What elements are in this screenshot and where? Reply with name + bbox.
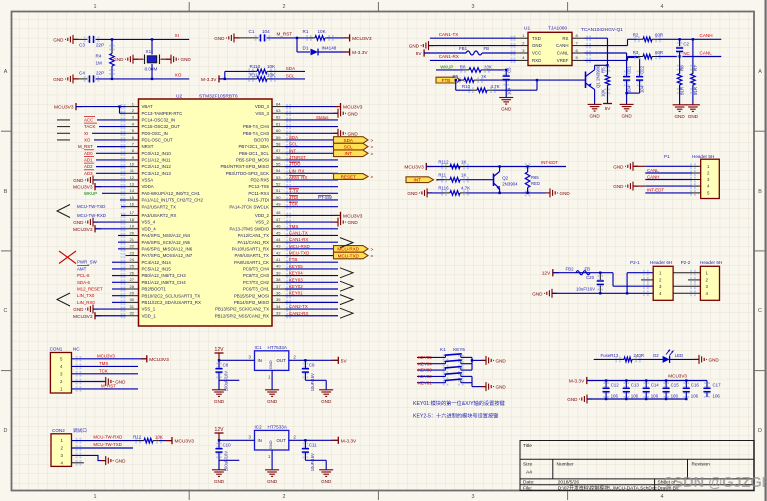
wire U2 right bottom row 11 [285, 288, 338, 290]
svg-text:SCL: SCL [289, 142, 298, 147]
ground (IC2) [265, 470, 279, 477]
svg-text:TCK: TCK [99, 368, 108, 373]
svg-text:PC5/A12_IN15: PC5/A12_IN15 [142, 267, 172, 272]
wire U2 right bottom row 12 [285, 295, 338, 297]
port MCU-RXD [334, 246, 369, 253]
connector CON2 body [51, 434, 72, 467]
svg-text:PC14-OSC32_IN: PC14-OSC32_IN [142, 118, 176, 123]
net label KEY03 [417, 369, 446, 371]
svg-text:2: 2 [283, 4, 286, 10]
svg-text:2N3904: 2N3904 [502, 181, 518, 186]
svg-text:PB0/A12_IN8/T3_CH3: PB0/A12_IN8/T3_CH3 [142, 273, 187, 278]
svg-text:XI: XI [175, 33, 180, 39]
power port GND (U2 VSS_4) [85, 218, 98, 227]
svg-text:TXD: TXD [532, 36, 541, 41]
svg-text:100uF/16V: 100uF/16V [224, 451, 229, 472]
svg-text:ARM_RX: ARM_RX [289, 175, 307, 180]
svg-text:Q2: Q2 [502, 176, 508, 181]
svg-text:38: 38 [276, 277, 281, 282]
capacitor C22 [639, 58, 641, 77]
power port GND (U2 VSS_1) [85, 305, 98, 314]
svg-text:M-3.3V: M-3.3V [352, 50, 368, 56]
svg-text:PA1/A12_IN1/T5_CH2/T2_CH2: PA1/A12_IN1/T5_CH2/T2_CH2 [142, 198, 204, 203]
CON2 pin hotspot dots [76, 438, 82, 444]
svg-text:4.7K: 4.7K [461, 186, 470, 191]
svg-text:M-3.3V: M-3.3V [201, 77, 217, 83]
ground (C5) [499, 98, 513, 105]
svg-text:OUT: OUT [277, 358, 287, 363]
svg-text:WKUP: WKUP [84, 191, 97, 196]
switch K1 key 1 [443, 380, 449, 386]
resistor R1 [306, 35, 312, 41]
svg-text:R2: R2 [633, 33, 639, 38]
svg-text:Title: Title [523, 443, 532, 449]
wire 12V to IC2 IN [219, 439, 255, 441]
svg-text:BOOT0: BOOT0 [254, 138, 269, 143]
svg-text:GND: GND [348, 220, 359, 225]
svg-text:PC12-TX5: PC12-TX5 [249, 184, 270, 189]
CON2 pin numbers [61, 438, 64, 465]
svg-text:35: 35 [276, 297, 281, 302]
port MCU-TXD [334, 252, 369, 259]
svg-text:GND: GND [267, 399, 278, 404]
power port GND (U2 VSS_2) [333, 218, 346, 227]
power port GND (BOOT0) [333, 129, 346, 138]
svg-text:5V: 5V [341, 358, 348, 364]
resistor R2 [628, 38, 638, 40]
svg-text:GND: GND [674, 114, 685, 119]
svg-text:51R: 51R [693, 87, 698, 95]
svg-text:AD0: AD0 [84, 151, 93, 156]
svg-text:CAN1-RX: CAN1-RX [439, 54, 459, 59]
svg-text:OUT: OUT [277, 438, 287, 443]
svg-text:FTB: FTB [442, 78, 451, 83]
svg-text:VCC: VCC [532, 51, 541, 56]
wire R110 to SDA [269, 70, 305, 72]
wire I2C pullup feed [219, 78, 255, 80]
svg-text:PA5/SPI1_SCK/A12_IN5: PA5/SPI1_SCK/A12_IN5 [142, 240, 191, 245]
svg-text:PB9-T4_CH4: PB9-T4_CH4 [243, 124, 270, 129]
crystal X1 [145, 55, 160, 65]
svg-text:PA7/SPI1_MOSI/A12_IN7: PA7/SPI1_MOSI/A12_IN7 [142, 253, 193, 258]
svg-text:>: > [371, 151, 374, 157]
svg-text:GND: GND [268, 440, 273, 449]
svg-text:A: A [758, 69, 762, 75]
wire key 4 output [461, 363, 472, 365]
svg-text:C17: C17 [713, 382, 722, 387]
svg-text:41: 41 [276, 257, 281, 262]
svg-text:2018/5/26: 2018/5/26 [558, 480, 580, 486]
wire 12V to IC1 IN [219, 359, 255, 361]
svg-text:PD1-OSC_OUT: PD1-OSC_OUT [142, 138, 174, 143]
svg-text:14: 14 [130, 188, 135, 193]
svg-text:VSS_1: VSS_1 [142, 307, 156, 312]
svg-text:8.00M: 8.00M [145, 67, 158, 72]
svg-text:NC: NC [683, 51, 689, 56]
svg-text:GND: GND [532, 43, 542, 48]
CON1 pin hotspot dots [76, 356, 82, 362]
regulator IC2 HT7533A body [255, 430, 289, 450]
svg-text:22P: 22P [96, 43, 104, 48]
svg-text:PC3/A12_IN13: PC3/A12_IN13 [142, 171, 172, 176]
svg-text:60R: 60R [655, 33, 663, 38]
power port MCU3V3 (U2 VDD_3) [340, 103, 342, 110]
net label KEY02 [417, 375, 446, 377]
svg-text:CAN2-RX: CAN2-RX [289, 311, 308, 316]
svg-text:PB11/I2C2_SDA/USART3_RX: PB11/I2C2_SDA/USART3_RX [142, 300, 201, 305]
svg-text:D: D [4, 428, 8, 434]
svg-text:MCU3V3: MCU3V3 [97, 353, 115, 358]
svg-text:GND: GND [501, 107, 512, 112]
svg-text:B: B [4, 189, 8, 195]
port INT (Q2 base) [406, 177, 434, 183]
ground (R6) [673, 105, 687, 112]
svg-text:M_RST: M_RST [78, 144, 93, 149]
svg-text:PB2/BOOT1: PB2/BOOT1 [142, 287, 167, 292]
power port MCU3V3 (U2 VDD_1) [94, 312, 96, 319]
svg-text:1K: 1K [461, 159, 466, 164]
net label MCU-TW-TXD (CON2 pin2) [72, 447, 134, 449]
svg-text:File:: File: [523, 486, 532, 492]
svg-text:K1: K1 [440, 347, 446, 352]
svg-text:INT-EDT: INT-EDT [541, 160, 558, 165]
svg-text:KEY04: KEY04 [289, 271, 303, 276]
svg-text:62: 62 [276, 115, 281, 120]
svg-text:R1: R1 [303, 29, 309, 34]
wire U2 right row 10 [285, 172, 338, 174]
svg-text:47: 47 [276, 217, 281, 222]
svg-text:GND: GND [532, 291, 543, 296]
svg-text:KEY01:模块的第一位&X/Y轴的设置按键: KEY01:模块的第一位&X/Y轴的设置按键 [413, 399, 505, 407]
connector P2-1 Header 6H body [653, 266, 673, 300]
power port MCU3V3 (U2 VDD_2) [340, 212, 342, 219]
svg-text:GND: GND [181, 57, 192, 62]
wire 12V feed [553, 272, 613, 274]
wire U2 right row 11 [285, 179, 338, 181]
svg-text:PA15-JTDI: PA15-JTDI [248, 198, 269, 203]
capacitor C21 [627, 57, 640, 59]
P2-1 pin hotspot dots [643, 270, 649, 276]
svg-text:MCU3V3: MCU3V3 [668, 374, 687, 379]
wire U2 right bottom row 13 [285, 301, 338, 303]
svg-text:PB13/SPI2_SCK/CAN2_TX: PB13/SPI2_SCK/CAN2_TX [215, 307, 269, 312]
wire key 3 output [461, 369, 472, 371]
svg-text:LIN_RX0: LIN_RX0 [77, 300, 95, 305]
capacitor C2 [679, 39, 681, 46]
svg-text:PC13-TAMPER-RTC: PC13-TAMPER-RTC [142, 111, 183, 116]
svg-text:VREF: VREF [557, 58, 569, 63]
power port GND (U1 pin2) [421, 41, 434, 50]
svg-text:PC6/T3_CH1: PC6/T3_CH1 [243, 287, 270, 292]
svg-text:51: 51 [276, 188, 281, 193]
svg-text:46: 46 [276, 224, 281, 229]
svg-text:104: 104 [640, 85, 645, 93]
svg-text:C13: C13 [631, 382, 640, 387]
svg-text:D:\07开发资料\控制模块\..\MCU-DATA.Sch: D:\07开发资料\控制模块\..\MCU-DATA.SchDoc [558, 485, 658, 492]
svg-text:PA14-JTCK SWCLK: PA14-JTCK SWCLK [229, 204, 269, 209]
svg-text:PB5-SPI3_MOSI: PB5-SPI3_MOSI [236, 158, 269, 163]
svg-text:FTB: FTB [289, 257, 297, 262]
ferrite bead FB2 [576, 271, 590, 275]
svg-text:PC15-OSC32_OUT: PC15-OSC32_OUT [142, 124, 181, 129]
wire U2 right row 15 [285, 206, 338, 208]
svg-text:HT7533A: HT7533A [268, 425, 288, 430]
svg-text:60: 60 [276, 128, 281, 133]
svg-text:58: 58 [276, 141, 281, 146]
svg-text:R4: R4 [96, 54, 102, 59]
svg-text:C20: C20 [586, 275, 595, 280]
svg-text:C16: C16 [691, 382, 700, 387]
net label KEY01 [417, 382, 446, 384]
net label TMS (CON1 pin4) [72, 365, 139, 367]
port RESET [334, 174, 369, 180]
svg-text:16: 16 [130, 201, 135, 206]
svg-text:INT: INT [414, 178, 422, 183]
svg-text:Header 6H: Header 6H [700, 260, 722, 265]
switch K1 key 4 [443, 361, 449, 367]
svg-text:PA12/CAN1_TX: PA12/CAN1_TX [238, 233, 269, 238]
port FTB [436, 77, 461, 83]
resistor R111 [248, 76, 254, 82]
svg-text:PWR_SW: PWR_SW [77, 260, 98, 265]
power port GND (P1 pin4) [625, 182, 638, 191]
svg-text:AD1: AD1 [84, 157, 93, 162]
svg-text:12V: 12V [215, 427, 225, 433]
net label SDA (U2 pin58) [285, 139, 333, 141]
svg-text:R112: R112 [438, 159, 449, 164]
svg-text:MCU3V3: MCU3V3 [54, 105, 74, 111]
resistor R112 [441, 164, 447, 170]
svg-text:GND: GND [560, 191, 571, 196]
svg-text:KEY02: KEY02 [418, 374, 432, 379]
svg-text:106: 106 [713, 394, 721, 399]
svg-text:45: 45 [276, 230, 281, 235]
svg-text:SCL: SCL [344, 144, 353, 149]
svg-text:20: 20 [130, 230, 135, 235]
svg-text:C2: C2 [683, 41, 689, 46]
svg-text:>: > [371, 145, 374, 151]
svg-text:TJA1060: TJA1060 [548, 26, 568, 32]
net label TCK (CON1 pin3) [72, 373, 139, 375]
svg-text:GND: GND [496, 358, 507, 363]
svg-text:SCL: SCL [286, 74, 295, 79]
svg-text:P2-1: P2-1 [630, 260, 640, 265]
svg-text:GND: GND [267, 479, 278, 484]
wire IC1 OUT [289, 359, 339, 361]
power port 12V (P2 supply) [552, 269, 554, 276]
svg-text:GND: GND [73, 307, 84, 312]
svg-text:INT-EDT: INT-EDT [647, 188, 664, 193]
U1 pin names [532, 36, 569, 63]
svg-text:IN4148: IN4148 [322, 45, 337, 50]
resistor R10 [455, 80, 457, 90]
svg-text:TMS: TMS [99, 361, 108, 366]
capacitor C11 [304, 440, 306, 448]
svg-text:GND: GND [73, 220, 84, 225]
svg-text:XI: XI [84, 131, 88, 136]
diode D1 [311, 49, 319, 56]
ground (C8) [212, 390, 226, 397]
svg-text:13: 13 [130, 181, 135, 186]
svg-text:29: 29 [130, 290, 135, 295]
svg-text:D: D [758, 428, 762, 434]
capacitor C15 [665, 381, 667, 389]
port SDA [334, 137, 369, 144]
svg-text:60R: 60R [655, 50, 663, 55]
svg-text:C11: C11 [309, 443, 317, 448]
svg-text:Status: Status [316, 115, 329, 120]
no-connect dashes rows 3-6 [57, 120, 70, 140]
capacitor C9 [304, 360, 306, 368]
svg-text:23: 23 [130, 250, 135, 255]
svg-text:GND: GND [115, 459, 126, 464]
svg-text:42: 42 [276, 250, 281, 255]
svg-text:R116: R116 [438, 186, 449, 191]
svg-text:PA9/USART1_TX: PA9/USART1_TX [235, 253, 270, 258]
capacitor C4 [84, 76, 90, 82]
svg-text:63: 63 [276, 108, 281, 113]
power port GND (reset RC) [226, 33, 239, 42]
wire MCU3V3 to INT-EDT [426, 166, 566, 168]
svg-text:MCU3V3: MCU3V3 [404, 165, 424, 171]
svg-text:NRST: NRST [142, 144, 154, 149]
svg-text:TCAN1042HGV-Q1: TCAN1042HGV-Q1 [581, 27, 623, 33]
svg-text:XO: XO [84, 137, 91, 142]
svg-text:MCU-RXD: MCU-RXD [289, 244, 310, 249]
svg-text:31: 31 [130, 304, 135, 309]
wire U2 VSS_3 to GND [285, 112, 338, 114]
svg-text:GND: GND [53, 37, 64, 42]
svg-text:GND: GND [613, 184, 624, 189]
svg-text:M_RST: M_RST [277, 31, 293, 36]
power port M-3.3V [337, 437, 339, 444]
U2 pin numbers [130, 101, 282, 315]
svg-text:C22: C22 [640, 65, 645, 74]
capacitor C12 [605, 381, 607, 389]
U2 right pins 64-33 [272, 107, 285, 316]
svg-text:KEY01: KEY01 [289, 291, 303, 296]
wire GND to C3 [73, 38, 79, 40]
wire IC1 GND pin [271, 370, 273, 389]
offsheet connector chevron left (rows29-30) [57, 293, 70, 306]
capacitor C20 [599, 273, 601, 280]
svg-text:PC1/A12_IN11: PC1/A12_IN11 [142, 158, 172, 163]
svg-text:MCU-TW-TXD: MCU-TW-TXD [77, 204, 105, 209]
svg-text:VBAT: VBAT [142, 104, 153, 109]
svg-text:1: 1 [94, 494, 97, 500]
svg-text:PA11/CAN1_RX: PA11/CAN1_RX [237, 240, 269, 245]
resistor R4 [111, 39, 113, 53]
wire Q1 collector [594, 65, 596, 70]
svg-text:GND: GND [214, 479, 225, 484]
svg-text:PB3/JTDO-SPI3_SCK: PB3/JTDO-SPI3_SCK [226, 171, 270, 176]
power port GND (U2 VSSA) [85, 175, 98, 184]
wire U2 PA10 (MCU-RXD) [285, 248, 333, 250]
svg-text:R65: R65 [531, 175, 539, 180]
svg-text:KEY04: KEY04 [418, 361, 432, 366]
svg-text:43: 43 [276, 244, 281, 249]
svg-text:PC0/A12_IN10: PC0/A12_IN10 [142, 151, 172, 156]
power port GND (bottom-left crystal, XO side) [65, 74, 78, 83]
wire key 5 output [461, 356, 472, 358]
svg-text:>: > [371, 254, 374, 260]
svg-text:12V: 12V [542, 271, 551, 277]
svg-text:FB2: FB2 [566, 266, 575, 271]
power port GND (keys lower) [481, 382, 494, 391]
svg-text:C1: C1 [249, 29, 255, 34]
svg-text:5V: 5V [605, 106, 612, 111]
power port GND (P1 pin1) [625, 162, 638, 171]
svg-text:10uF/16V: 10uF/16V [576, 287, 595, 292]
power port 5V [337, 357, 339, 364]
wire CON1 pin2 to GND [72, 381, 106, 383]
P2-1 pin numbers [659, 270, 662, 296]
svg-text:4: 4 [661, 494, 664, 500]
wire U2 right row 12 [285, 186, 338, 188]
resistor R3 [627, 57, 629, 61]
svg-text:CANH: CANH [556, 43, 568, 48]
power port MCU3V3 (U2 VDDA) [94, 183, 96, 190]
svg-text:KEY05: KEY05 [418, 355, 432, 360]
svg-text:LIN_RX: LIN_RX [289, 168, 304, 173]
svg-text:52: 52 [276, 181, 281, 186]
wire U1 CANH pin [585, 45, 628, 47]
U2 pin names [142, 104, 270, 318]
U1 pins [516, 38, 585, 60]
svg-text:HT7533A: HT7533A [268, 345, 288, 350]
svg-text:B: B [758, 189, 762, 195]
svg-text:Date:: Date: [523, 480, 534, 486]
power port 12V (IC2) [215, 432, 224, 434]
wire Q2 collector [499, 167, 501, 172]
wire net CANL [658, 56, 721, 58]
ground (C9) [319, 390, 333, 397]
svg-text:>: > [371, 138, 374, 144]
svg-text:CON2: CON2 [52, 428, 65, 433]
svg-text:VSS_4: VSS_4 [142, 220, 156, 225]
svg-text:GND: GND [73, 178, 84, 183]
svg-text:LED: LED [675, 353, 684, 358]
svg-text:VDD_1: VDD_1 [142, 313, 157, 318]
power port GND (P2) [544, 289, 557, 298]
wire U2 right bottom row 2 [285, 228, 338, 230]
port INT [334, 150, 369, 157]
svg-text:61: 61 [276, 121, 281, 126]
svg-text:M12_RESET: M12_RESET [77, 286, 103, 291]
svg-text:22P: 22P [96, 70, 104, 75]
net label KEY04 [417, 363, 446, 365]
svg-text:CAN1-TX: CAN1-TX [289, 230, 308, 235]
svg-text:R6: R6 [680, 65, 685, 71]
svg-text:36: 36 [276, 290, 281, 295]
svg-text:GND: GND [621, 113, 632, 118]
svg-text:12: 12 [130, 175, 135, 180]
switch K1 key 5 [443, 355, 449, 361]
svg-text:2: 2 [283, 494, 286, 500]
svg-text:Size: Size [523, 461, 533, 467]
wire key 1 output [461, 382, 472, 384]
P1 pin hotspot dots [690, 164, 696, 170]
net label CAN1-RX [430, 59, 516, 61]
svg-text:54: 54 [276, 168, 281, 173]
svg-text:SDA: SDA [286, 66, 296, 71]
svg-text:C8: C8 [223, 363, 229, 368]
wire U2 right bottom row 10 [285, 281, 338, 283]
power port GND (LED) [694, 355, 707, 364]
svg-text:R12: R12 [133, 435, 142, 440]
net label MCU-TW-RXD (CON2 pin1) [72, 440, 144, 442]
power port GND (decoupling rail) [579, 395, 592, 404]
